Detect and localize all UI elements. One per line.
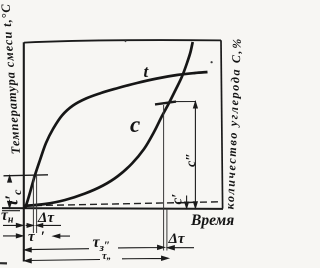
frame top edge [24,40,221,43]
tau-n dimension arrow row (right-pointing at axis) [3,224,23,228]
t'c level line at left [4,175,49,176]
dashed initial-carbon level line [24,202,221,206]
short tick under axis at left [2,210,20,212]
tau-3-double-prime dimension line (row 2) [25,256,169,263]
speck near top edge [125,40,127,42]
tau-prime dimension left outside arrow [3,234,23,238]
speck right of t curve end [211,61,213,63]
t'c dimension arrow (up) [8,176,12,182]
t curve (temperature) [25,72,208,209]
svg-text:Δτ: Δτ [37,210,55,226]
background paper [0,0,244,268]
c'' dimension line with arrows [194,102,198,208]
c curve (carbon content) [24,42,193,206]
tau-3-prime dimension line (row 1) [25,245,165,252]
delta-tau left outside arrows [26,224,61,228]
svg-text:Время: Время [190,212,234,229]
svg-text:c: c [130,112,140,137]
svg-text:Δτ: Δτ [168,231,186,247]
t'c dimension arrow (down) [8,202,12,208]
frame right edge [221,40,223,208]
frame bottom edge / time axis [2,207,223,210]
smudge at bottom-left image edge [0,262,7,264]
extension line right pair, second [166,209,168,251]
tick on c curve at tau-3 point [155,102,176,105]
thin link line from tick to c'' arrow [176,101,196,103]
frame left edge / y-axis extended down [23,42,25,261]
right delta-tau outside arrow stub (row 1) [168,246,194,250]
second extension line left [36,176,38,233]
c' dimension line [185,196,189,209]
extension line pair at left (delta-tau) [32,176,34,233]
c' level tick [181,201,193,204]
extension line from tick down (right pair, first) [163,105,165,251]
tau-prime right outside arrow [53,234,70,238]
svg-text:τ„: τ„ [102,251,111,262]
svg-text:c′: c′ [170,194,186,205]
svg-text:c″: c″ [184,153,199,167]
